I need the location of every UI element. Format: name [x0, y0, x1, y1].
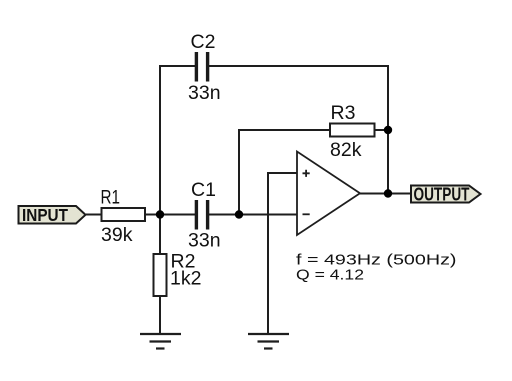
svg-text:C1: C1: [191, 179, 216, 201]
svg-text:33n: 33n: [188, 82, 221, 104]
svg-text:39k: 39k: [101, 224, 133, 246]
svg-text:82k: 82k: [330, 139, 362, 161]
svg-text:1k2: 1k2: [170, 268, 201, 290]
svg-text:33n: 33n: [188, 230, 221, 252]
svg-text:INPUT: INPUT: [22, 205, 68, 225]
svg-text:R1: R1: [101, 187, 121, 209]
svg-text:Q = 4.12: Q = 4.12: [296, 267, 364, 284]
svg-text:R3: R3: [331, 102, 356, 124]
svg-text:C2: C2: [191, 31, 216, 53]
svg-text:OUTPUT: OUTPUT: [414, 184, 471, 205]
